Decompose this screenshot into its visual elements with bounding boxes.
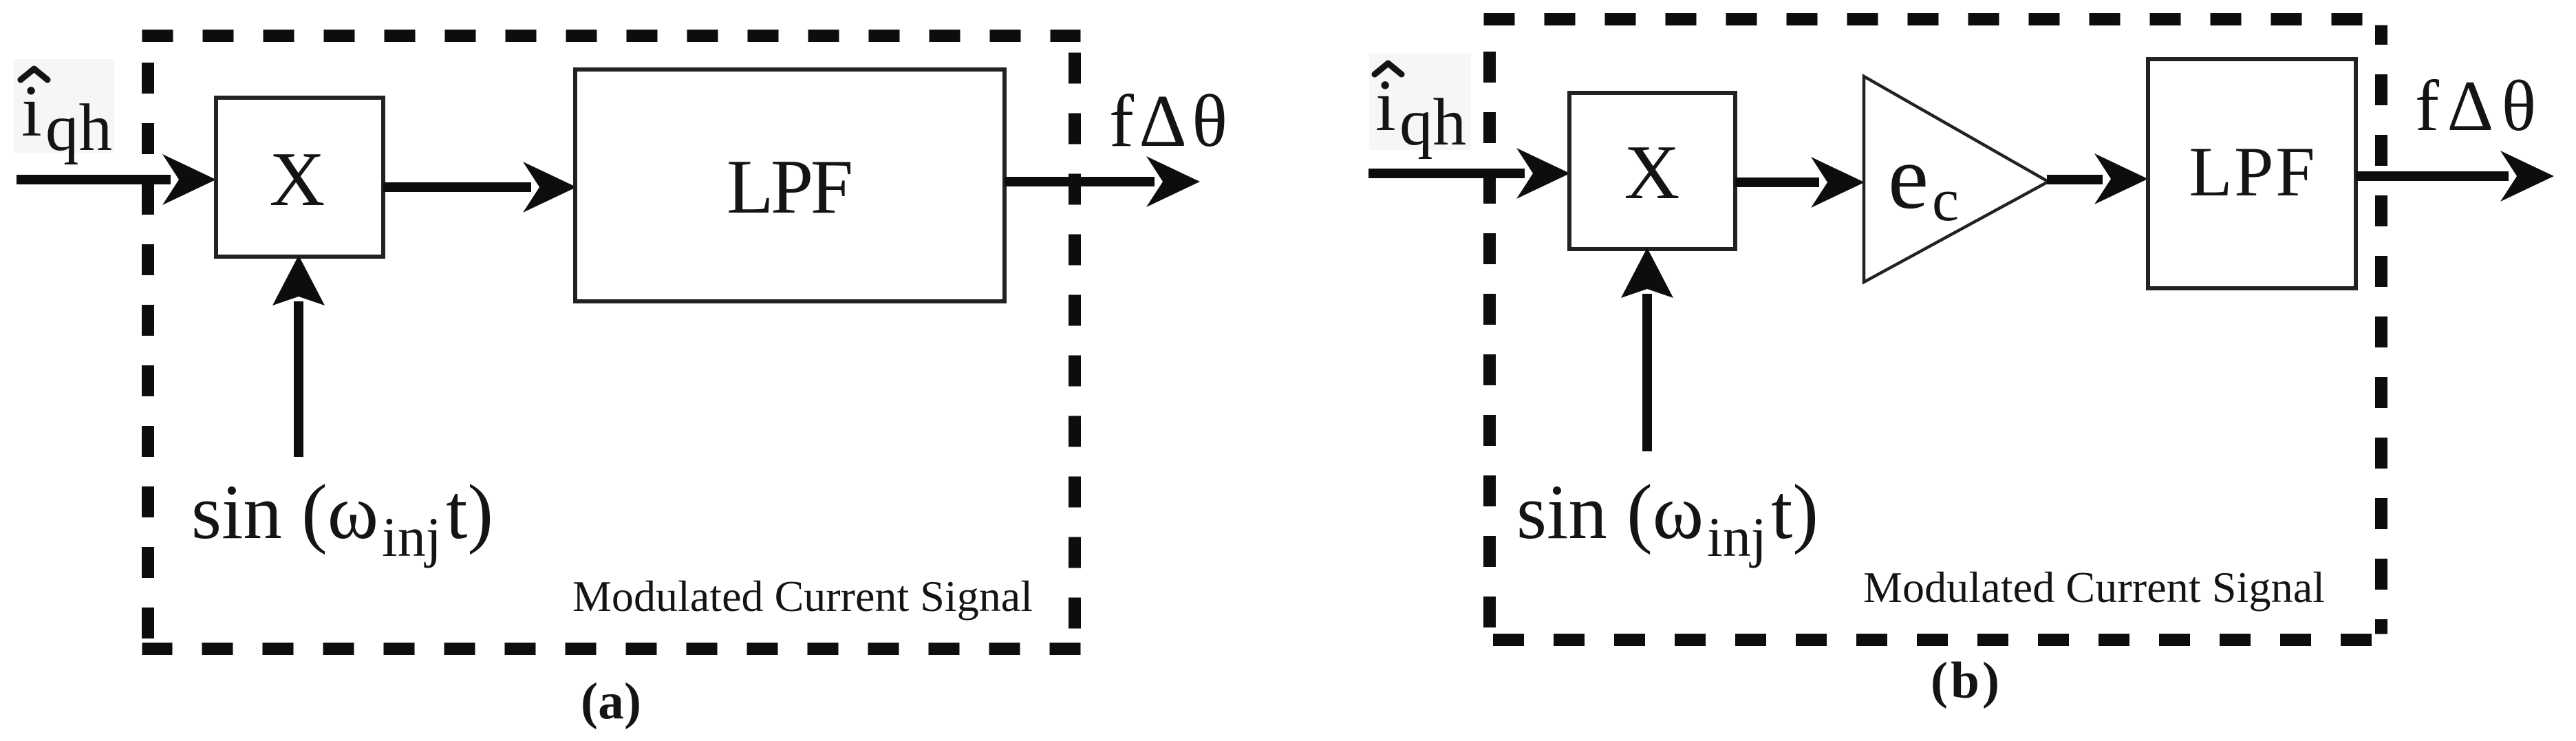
- wire output (b): [2356, 171, 2509, 181]
- svg-text:i: i: [21, 71, 42, 152]
- node label i_qh hat (b): [1375, 63, 1402, 74]
- label background i_qh (a): [14, 59, 114, 153]
- svg-text:X: X: [1624, 130, 1680, 215]
- svg-text:sin (ω: sin (ω: [191, 469, 378, 555]
- svg-text:LPF: LPF: [2189, 133, 2315, 211]
- svg-text:c: c: [1932, 167, 1959, 234]
- svg-text:Modulated Current Signal: Modulated Current Signal: [572, 572, 1033, 621]
- caption Modulated Current Signal (b): [1863, 563, 2325, 612]
- LPF block (a): [575, 69, 1005, 301]
- svg-text:Modulated Current Signal: Modulated Current Signal: [1863, 563, 2325, 612]
- label background i_qh (b): [1369, 54, 1471, 150]
- wire input (a): [17, 175, 171, 184]
- svg-text:qh: qh: [1399, 85, 1466, 159]
- svg-text:t): t): [446, 469, 493, 555]
- wire multiplier to amplifier (b): [1735, 178, 1819, 187]
- svg-text:X: X: [270, 137, 325, 222]
- wire amplifier to LPF (b): [2047, 175, 2103, 184]
- multiplier block X (b): [1569, 93, 1735, 249]
- caption Modulated Current Signal (a): [572, 572, 1033, 621]
- arrowhead into LPF (a): [523, 162, 577, 213]
- figure label (a): [581, 673, 641, 730]
- wire input (b): [1368, 169, 1525, 178]
- source label sin(w_inj t) (a): [191, 469, 493, 568]
- svg-text:fΔθ: fΔθ: [2415, 65, 2536, 146]
- LPF block (b): [2148, 59, 2356, 288]
- svg-text:(b): (b): [1931, 652, 1999, 709]
- svg-text:e: e: [1888, 126, 1929, 228]
- svg-text:inj: inj: [1707, 506, 1767, 568]
- svg-text:(a): (a): [581, 673, 641, 730]
- svg-text:i: i: [1375, 65, 1396, 147]
- dashed box (b) Modulated Current Signal: [1484, 19, 2387, 640]
- wire output (a): [1005, 177, 1155, 186]
- arrowhead output (a): [1146, 156, 1200, 207]
- amplifier triangle e_c (b): [1864, 76, 2048, 282]
- svg-text:inj: inj: [382, 506, 442, 568]
- arrowhead output (b): [2500, 151, 2554, 202]
- wire sin input vertical (b): [1642, 294, 1652, 451]
- arrowhead into LPF (b): [2094, 153, 2148, 204]
- svg-text:LPF: LPF: [727, 144, 853, 230]
- node label i_qh hat (a): [21, 69, 47, 80]
- svg-text:sin (ω: sin (ω: [1516, 469, 1704, 555]
- net label f delta theta (a): [1109, 80, 1227, 162]
- multiplier block X (a): [216, 98, 383, 257]
- arrowhead up into multiplier (b): [1621, 248, 1673, 298]
- source label sin(w_inj t) (b): [1516, 469, 1818, 568]
- arrowhead input (a): [162, 154, 216, 205]
- arrowhead input (b): [1516, 148, 1570, 199]
- arrowhead into amplifier (b): [1811, 157, 1865, 208]
- svg-text:fΔθ: fΔθ: [1109, 80, 1227, 162]
- node label i_qh (a): [21, 71, 112, 164]
- wire sin input vertical (a): [294, 301, 303, 457]
- figure label (b): [1931, 652, 1999, 709]
- dashed box (a) Modulated Current Signal: [142, 36, 1081, 649]
- arrowhead up into multiplier (a): [272, 255, 325, 305]
- node label i_qh (b): [1375, 65, 1466, 159]
- svg-text:qh: qh: [45, 91, 112, 164]
- svg-text:t): t): [1771, 469, 1818, 555]
- wire multiplier to LPF (a): [383, 182, 531, 192]
- net label f delta theta (b): [2415, 65, 2536, 146]
